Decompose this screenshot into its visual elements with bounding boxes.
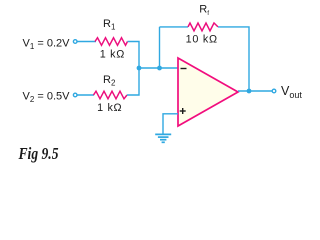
- svg-text:1 kΩ: 1 kΩ: [97, 102, 122, 114]
- resistor Rf: [188, 23, 218, 31]
- node Vout output terminal: [272, 89, 276, 93]
- svg-text:Fig 9.5: Fig 9.5: [18, 144, 59, 163]
- wire: non-inverting input to ground: [163, 114, 178, 134]
- wire: summing node to inverting input: [139, 67, 178, 69]
- node junction A (R1/R2 join): [137, 66, 142, 71]
- svg-text:V2 = 0.5V: V2 = 0.5V: [23, 90, 71, 104]
- wire: top feedback left segment: [160, 26, 189, 28]
- node junction B (feedback tap): [157, 66, 162, 71]
- svg-text:V1 = 0.2V: V1 = 0.2V: [23, 37, 71, 51]
- wire: op-amp output: [238, 90, 272, 92]
- node V1 input terminal: [73, 40, 77, 44]
- ground: [155, 134, 171, 142]
- svg-text:R2: R2: [103, 74, 116, 88]
- resistor R1: [95, 38, 128, 46]
- wire: feedback riser: [159, 27, 161, 68]
- pin minus (inverting input): [181, 68, 187, 70]
- resistor R2: [94, 91, 128, 99]
- wire: R1 to summing node: [128, 42, 140, 69]
- wire: V2 terminal to R2: [77, 94, 94, 96]
- wire: V1 terminal to R1: [77, 41, 96, 43]
- svg-text:1 kΩ: 1 kΩ: [100, 48, 125, 60]
- node junction C (output/feedback): [247, 89, 252, 94]
- pin plus (non-inverting input): [180, 110, 186, 112]
- wire: top feedback right segment and drop to output: [218, 27, 249, 91]
- svg-text:Rf: Rf: [199, 4, 209, 17]
- op-amp U1: [178, 58, 238, 126]
- wire: R2 to summing node: [127, 68, 139, 95]
- svg-text:10 kΩ: 10 kΩ: [186, 34, 218, 46]
- svg-text:R1: R1: [103, 18, 116, 32]
- svg-text:Vout: Vout: [281, 84, 302, 100]
- node V2 input terminal: [73, 93, 77, 97]
